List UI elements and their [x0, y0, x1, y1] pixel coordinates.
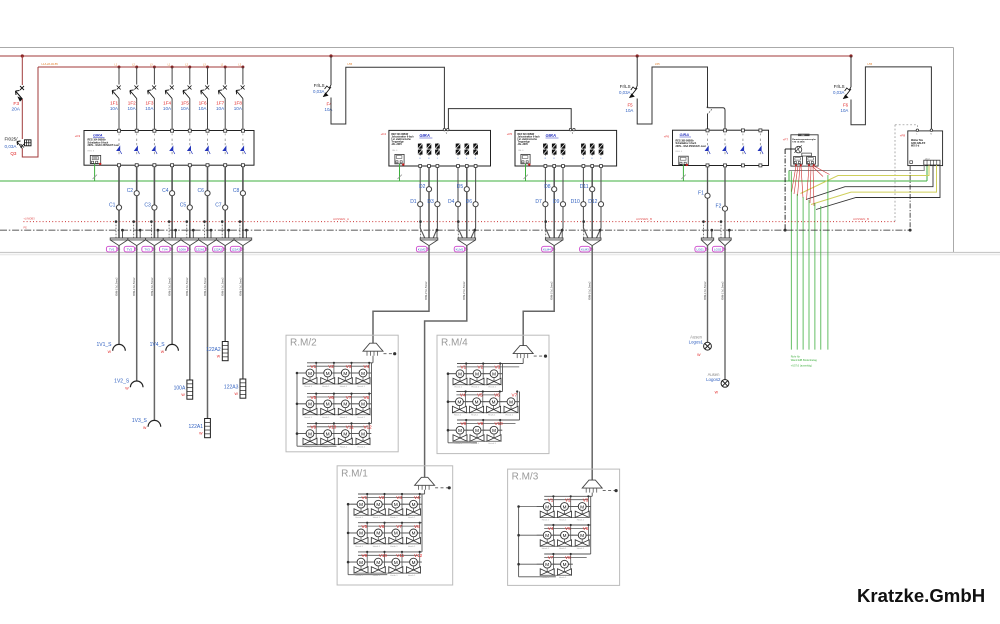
svg-text:10A: 10A	[198, 106, 207, 111]
valve V6	[368, 532, 375, 534]
lamp Ausen Logos1	[704, 342, 712, 350]
svg-text:10A: 10A	[216, 106, 225, 111]
wire F6 to U6	[851, 67, 931, 131]
svg-text:M: M	[376, 502, 380, 507]
wire green risers	[790, 171, 792, 349]
svg-text:T-M 15.0906: T-M 15.0906	[792, 141, 805, 143]
wire 1F8 feed	[242, 67, 244, 85]
svg-text:GIRA: GIRA	[546, 133, 556, 138]
wire row R.M/3 row2	[519, 534, 591, 536]
svg-text:M: M	[376, 531, 380, 536]
node junction 1F5	[188, 66, 191, 69]
svg-text:+F6: +F6	[664, 135, 670, 139]
wire row return R.M/4 row1	[453, 384, 500, 386]
wire header R.M/3 row2	[544, 524, 591, 526]
wire header R.M/1 row1	[358, 493, 425, 495]
svg-text:F2: F2	[716, 203, 722, 209]
wire bus R.M/1	[347, 504, 349, 575]
svg-text:V2: V2	[328, 364, 334, 369]
wire 1F7 feed	[224, 67, 226, 85]
valve V12	[403, 561, 410, 563]
wire F3 to Q3	[21, 99, 23, 139]
tag TV4	[160, 246, 171, 252]
output U2 ch6	[475, 143, 477, 155]
svg-text:M: M	[492, 372, 496, 377]
wire 1F8 to module U1	[242, 99, 244, 131]
wire row R.M/1 row3	[348, 561, 422, 563]
terminal U1 top ch1	[118, 129, 121, 132]
wire 1F4 feed	[171, 67, 173, 85]
svg-text:W: W	[217, 355, 221, 359]
wire bus R.M/4	[447, 373, 449, 443]
svg-text:V8: V8	[461, 421, 467, 426]
node junction F3 tap	[21, 54, 24, 57]
svg-text:Heizk.1: Heizk.1	[408, 546, 416, 548]
tap PE F1	[711, 230, 713, 238]
node red dots U5	[795, 164, 797, 166]
connector D8	[545, 238, 563, 246]
terminal U2 bottom ch4	[457, 165, 460, 168]
tap PE D2	[436, 230, 438, 238]
switch point D1	[418, 202, 423, 207]
svg-text:M: M	[545, 533, 549, 538]
heater 122A2	[222, 342, 228, 361]
svg-text:M: M	[394, 502, 398, 507]
wire 1F2 feed	[136, 67, 138, 85]
svg-text:V3: V3	[346, 364, 352, 369]
wire row R.M/1 row2	[348, 532, 422, 534]
wire feed drop R.M/4	[522, 358, 524, 363]
wire header R.M/2 row3	[307, 422, 372, 424]
tap PE C7	[228, 230, 230, 238]
svg-text:C5: C5	[180, 202, 187, 208]
wire circuit C7	[224, 167, 226, 238]
node junction 1F3	[153, 66, 156, 69]
svg-text:M: M	[343, 371, 347, 376]
valve V7	[335, 403, 342, 405]
svg-text:10A: 10A	[110, 106, 119, 111]
connector C8	[234, 238, 252, 246]
wire riser R.M/3 row1	[590, 496, 592, 525]
svg-text:NYM-J 3x1,5mm2: NYM-J 3x1,5mm2	[116, 277, 118, 296]
output U3 ch3	[562, 143, 564, 155]
tag 122A2	[213, 246, 224, 252]
valve V7	[385, 532, 392, 534]
svg-text:Heizk.1: Heizk.1	[506, 415, 514, 417]
terminal U2 bottom ch3	[436, 165, 439, 168]
svg-text:AUSSEN_B: AUSSEN_B	[636, 217, 652, 221]
valve V5	[300, 403, 307, 405]
svg-text:Heizk.1: Heizk.1	[408, 575, 416, 577]
svg-text:GIRA: GIRA	[680, 133, 690, 137]
valve V4	[537, 534, 544, 536]
wire yellow bundle 2	[811, 165, 937, 204]
border frame	[0, 47, 954, 49]
wire PE green bus	[0, 180, 927, 182]
svg-text:C4: C4	[162, 188, 169, 194]
cable KLM1 to R.M/1	[425, 246, 467, 478]
contact U4 ch4	[759, 134, 761, 137]
svg-text:V2: V2	[379, 495, 385, 500]
stub dashed R.M/1	[435, 487, 448, 489]
output U2 ch2	[428, 143, 430, 155]
svg-text:M: M	[580, 504, 584, 509]
svg-text:f.el. elektronische: f.el. elektronische	[518, 138, 538, 141]
svg-text:M: M	[458, 428, 462, 433]
svg-text:AUSSEN_A: AUSSEN_A	[333, 217, 349, 221]
stub dashed R.M/2	[384, 353, 394, 355]
tap PE C3	[157, 230, 159, 238]
connector C6	[199, 238, 217, 246]
svg-text:Heizk.1: Heizk.1	[340, 447, 348, 449]
svg-text:V7: V7	[548, 555, 554, 560]
wire row return R.M/2 row3	[303, 444, 369, 446]
svg-text:+F4: +F4	[381, 132, 387, 136]
room box R.M/4	[437, 335, 549, 453]
stub dashed R.M/3	[603, 490, 615, 492]
terminal block U5 b	[807, 157, 816, 165]
svg-text:GIRA: GIRA	[419, 133, 429, 138]
svg-text:Jalousieaktor 6-fach: Jalousieaktor 6-fach	[391, 136, 414, 139]
lamp Ausen Logos2	[721, 380, 729, 388]
valve V4	[403, 503, 410, 505]
wire circuit C6	[207, 167, 209, 238]
svg-text:KLM3: KLM3	[581, 248, 589, 252]
svg-text:Heizk.1: Heizk.1	[356, 517, 364, 519]
cable C2	[136, 246, 138, 381]
svg-text:Q3: Q3	[10, 151, 17, 156]
connector C4	[163, 238, 181, 246]
svg-text:JAL 6: JAL 6	[518, 149, 524, 152]
wire row R.M/3 row3	[519, 563, 573, 565]
module U5 Raumtemperaturregler	[791, 135, 818, 166]
tap dashed C5	[186, 222, 188, 238]
wire header R.M/1 row2	[358, 522, 422, 524]
cable C7	[224, 246, 226, 342]
svg-text:PE: PE	[23, 225, 27, 229]
svg-text:100A: 100A	[179, 248, 186, 252]
svg-text:NYM-J 3x1,5mm2: NYM-J 3x1,5mm2	[170, 277, 172, 296]
output U3 ch6	[600, 143, 602, 155]
switch point C1	[116, 205, 121, 210]
svg-text:122A2: 122A2	[214, 248, 223, 252]
node red dot U3	[528, 163, 530, 165]
svg-text:Heizk.1: Heizk.1	[340, 417, 348, 419]
terminal U1 top ch8	[241, 129, 244, 132]
output U2 ch5	[466, 143, 468, 155]
svg-text:F1: F1	[698, 191, 704, 197]
svg-text:V3: V3	[495, 365, 501, 370]
connector C2	[128, 238, 146, 246]
svg-text:LG02: LG02	[714, 248, 722, 252]
contact U1 ch1	[118, 134, 120, 137]
wire row R.M/4 row1	[448, 373, 502, 375]
breaker 1F1	[112, 90, 119, 99]
heater 122A1	[205, 419, 211, 438]
node red dot U2	[402, 163, 404, 165]
svg-text:1F2: 1F2	[128, 101, 136, 106]
cable gland R.M/3	[582, 480, 602, 488]
svg-text:JAL-230V: JAL-230V	[391, 143, 402, 146]
svg-text:Heizk.1: Heizk.1	[489, 387, 497, 389]
switch point D6	[473, 202, 478, 207]
svg-text:0,03A: 0,03A	[313, 89, 325, 94]
terminal U1 bottom ch2	[135, 164, 138, 167]
svg-text:Heizk.1: Heizk.1	[559, 548, 567, 550]
svg-text:W: W	[161, 350, 165, 354]
terminal U4 bottom ch1	[706, 164, 709, 167]
wire PE dash-dot bus	[0, 229, 910, 231]
wire U2 to U3 link	[448, 109, 571, 131]
svg-text:Heizk.1: Heizk.1	[559, 520, 567, 522]
svg-text:1F1: 1F1	[110, 101, 118, 106]
wire output D1	[420, 167, 425, 238]
svg-text:M: M	[412, 502, 416, 507]
terminal block U2 aux	[395, 154, 404, 163]
svg-text:V10: V10	[328, 425, 337, 430]
switch point C5	[187, 205, 192, 210]
wire row R.M/2 row2	[297, 403, 371, 405]
svg-text:1F7: 1F7	[216, 101, 224, 106]
terminal U1 bottom ch6	[206, 164, 209, 167]
node junction 1F1	[118, 66, 121, 69]
breaker 1F3	[148, 90, 155, 99]
connector C5	[181, 238, 199, 246]
cable KLM4 to R.M/4	[523, 246, 554, 346]
module U1 Schaltaktor 8-fach	[84, 131, 254, 166]
wire L1 main red bus	[0, 55, 851, 57]
svg-text:GIRA: GIRA	[93, 134, 103, 138]
svg-text:Heizk.1: Heizk.1	[542, 577, 550, 579]
svg-text:C2: C2	[127, 188, 134, 194]
svg-text:M: M	[343, 402, 347, 407]
wire header R.M/2 row2	[307, 393, 372, 395]
wire riser R.M/2 row1	[371, 363, 373, 394]
svg-text:1V2_S: 1V2_S	[114, 379, 130, 385]
valve V11	[335, 433, 342, 435]
wire PE drop U2	[399, 164, 401, 181]
terminal U3 bottom ch5	[591, 165, 594, 168]
svg-text:M: M	[563, 504, 567, 509]
svg-text:Heizk.1: Heizk.1	[455, 443, 463, 445]
svg-text:122A3: 122A3	[231, 248, 240, 252]
tap PE C8	[245, 230, 247, 238]
wire row return R.M/4 row3	[453, 440, 500, 442]
tap PE C5	[192, 230, 194, 238]
wire output D8	[553, 167, 555, 238]
breaker F5 Fi/LS	[631, 86, 637, 90]
wire 1F1 to module U1	[118, 99, 120, 131]
wire output D2	[428, 167, 430, 238]
valve V3	[484, 373, 491, 375]
svg-text:10A: 10A	[145, 106, 154, 111]
svg-text:V9: V9	[362, 553, 368, 558]
wire 1F2 to module U1	[136, 99, 138, 131]
svg-text:M: M	[457, 400, 461, 405]
svg-text:Heizk.1: Heizk.1	[577, 520, 585, 522]
wire PE drop U4	[682, 165, 684, 181]
svg-text:R.M/4: R.M/4	[441, 338, 468, 349]
svg-text:V2: V2	[478, 365, 484, 370]
svg-text:Heizk.1: Heizk.1	[340, 386, 348, 388]
valve V3	[572, 506, 579, 508]
svg-text:M: M	[492, 400, 496, 405]
cable C5	[189, 246, 191, 380]
wire row R.M/4 row2	[448, 401, 519, 403]
tag LG02	[712, 246, 723, 252]
tap dashed C2	[133, 222, 135, 238]
wire circuit F2	[724, 167, 726, 238]
svg-text:Heizk.1: Heizk.1	[373, 546, 381, 548]
wire feed drop R.M/2	[372, 356, 374, 363]
contact U4 ch1	[707, 134, 709, 137]
svg-text:V10: V10	[379, 553, 388, 558]
svg-text:Heizk.1: Heizk.1	[305, 417, 313, 419]
svg-text:Jalousieaktor 6-fach: Jalousieaktor 6-fach	[518, 136, 541, 139]
wire row return R.M/3 row3	[540, 574, 571, 576]
svg-text:F3: F3	[13, 101, 19, 107]
svg-text:W: W	[199, 432, 203, 436]
svg-text:Heizk.1: Heizk.1	[390, 546, 398, 548]
wire output D11	[591, 167, 593, 238]
svg-text:10A: 10A	[234, 106, 243, 111]
wire row return R.M/4 row2	[452, 412, 517, 414]
svg-text:Heizk.1: Heizk.1	[408, 517, 416, 519]
node red dot U4	[686, 164, 688, 166]
contact U4 ch3	[742, 134, 744, 137]
svg-text:Heizk.1: Heizk.1	[358, 386, 366, 388]
connector D5	[458, 238, 476, 246]
valve V6	[572, 534, 579, 536]
svg-text:V4: V4	[364, 364, 370, 369]
svg-text:20A: 20A	[11, 107, 20, 113]
wire row return R.M/2 row1	[303, 383, 369, 385]
output U2 ch3	[436, 143, 438, 155]
terminal U2 bottom ch2	[428, 165, 431, 168]
header tab U5	[798, 134, 810, 136]
svg-text:V10: V10	[495, 421, 504, 426]
terminal U4 bottom ch3	[741, 164, 744, 167]
wire row R.M/1 row1	[348, 503, 422, 505]
tap PE D11	[599, 230, 601, 238]
terminal U4 top ch1	[706, 129, 709, 132]
terminal U1 bottom ch5	[188, 164, 191, 167]
svg-text:0,03A: 0,03A	[4, 144, 17, 149]
valve V1	[537, 506, 544, 508]
breaker 1F8	[236, 90, 243, 99]
module U3 Jalousieaktor 6-fach	[515, 130, 617, 166]
switch point D10	[581, 202, 586, 207]
wire row return R.M/1 row3	[354, 572, 420, 574]
svg-text:1F3: 1F3	[145, 101, 153, 106]
svg-text:V12: V12	[414, 553, 423, 558]
svg-text:Heizk.1: Heizk.1	[305, 386, 313, 388]
contact U1 ch7	[224, 134, 226, 137]
valve V8	[450, 429, 457, 431]
switch point F2	[722, 206, 727, 211]
connector F2	[719, 238, 731, 246]
room box R.M/2	[286, 335, 398, 452]
terminal U2 top	[443, 128, 445, 130]
heater 122A3	[240, 379, 246, 398]
svg-text:+F5: +F5	[507, 132, 513, 136]
svg-text:Rohr für: Rohr für	[791, 355, 801, 359]
terminal U1 bottom ch7	[224, 164, 227, 167]
output U3 ch1	[544, 143, 546, 155]
node junction 1F8	[241, 66, 244, 69]
tap dashed F1	[703, 222, 705, 238]
wire AUSSEN red dotted bus	[23, 221, 895, 223]
svg-text:KLM4: KLM4	[543, 248, 551, 252]
valve V1	[450, 373, 457, 375]
terminal U3 bottom ch6	[600, 165, 603, 168]
svg-text:V6: V6	[328, 395, 334, 400]
tap dashed C4	[168, 222, 170, 238]
wire riser R.M/1 row2	[421, 523, 423, 552]
svg-text:Heizk.1: Heizk.1	[358, 447, 366, 449]
valve V6	[317, 403, 324, 405]
valve V9	[467, 429, 474, 431]
svg-text:V4: V4	[460, 393, 466, 398]
svg-text:V6: V6	[494, 393, 500, 398]
svg-text:V7: V7	[512, 393, 518, 398]
valve V8	[403, 532, 410, 534]
svg-text:NYM-J 3x1,5mm2: NYM-J 3x1,5mm2	[705, 281, 707, 300]
terminal U1 top ch6	[206, 129, 209, 132]
svg-text:Heizk.1: Heizk.1	[322, 417, 330, 419]
svg-text:NYM-J 3x1,5mm2: NYM-J 3x1,5mm2	[722, 281, 724, 300]
svg-text:V5: V5	[362, 524, 368, 529]
svg-text:V2: V2	[565, 498, 571, 503]
svg-text:TV1: TV1	[109, 248, 115, 252]
wire output D9	[558, 167, 563, 238]
wire riser R.M/3 row2	[590, 525, 592, 554]
svg-text:C3: C3	[144, 202, 151, 208]
switch point C4	[170, 191, 175, 196]
tap dashed D5	[457, 222, 459, 238]
svg-text:V7: V7	[396, 524, 402, 529]
svg-text:W: W	[181, 393, 185, 397]
svg-text:M: M	[580, 533, 584, 538]
sensor circle U5	[795, 146, 802, 153]
wire output D4	[458, 167, 463, 238]
wire dash-dot U6 drop	[909, 166, 911, 230]
valve V10	[368, 561, 375, 563]
svg-text:D2: D2	[419, 184, 426, 190]
svg-text:M: M	[359, 560, 363, 565]
svg-text:R.M/2: R.M/2	[290, 338, 317, 349]
tap PE C6	[210, 230, 212, 238]
svg-text:+F7: +F7	[783, 137, 789, 141]
terminal U4 top ch4	[759, 129, 762, 132]
terminal U1 top ch2	[135, 129, 138, 132]
connector D2	[420, 238, 438, 246]
valve V7	[501, 401, 508, 403]
svg-text:Heizk.1: Heizk.1	[454, 415, 462, 417]
wire black bundle 2	[816, 165, 940, 209]
svg-text:V4: V4	[414, 495, 420, 500]
cable F1	[707, 246, 709, 343]
wire header R.M/4 row1	[457, 363, 523, 365]
tap dashed C1	[115, 222, 117, 238]
valve V9	[351, 561, 358, 563]
svg-text:V3: V3	[396, 495, 402, 500]
tag KLM4	[542, 246, 553, 252]
breaker F4 Fi/LS	[325, 85, 331, 89]
wire yellow bundle 1	[801, 165, 930, 193]
wire 1F6 to module U1	[207, 99, 209, 131]
svg-text:V4: V4	[548, 526, 554, 531]
